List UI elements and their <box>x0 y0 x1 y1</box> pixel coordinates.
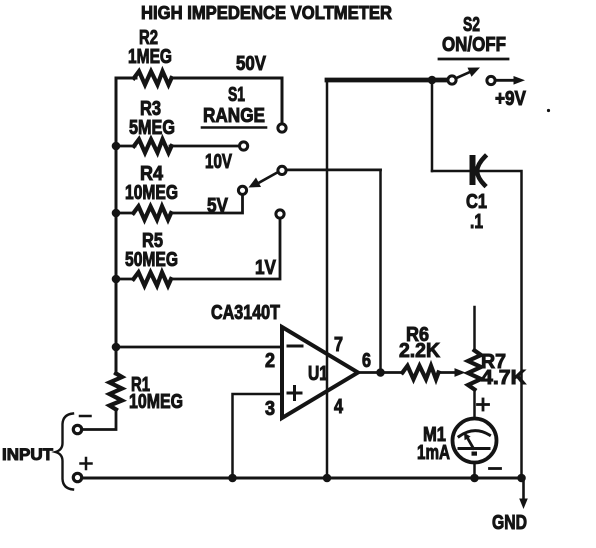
svg-text:.1: .1 <box>470 211 483 233</box>
junction supply line bus <box>323 474 332 483</box>
junction left bus R3 <box>112 142 121 151</box>
svg-text:6: 6 <box>362 350 371 372</box>
svg-text:10V: 10V <box>205 151 232 173</box>
svg-text:ON/OFF: ON/OFF <box>442 34 506 56</box>
resistor R2 <box>134 71 172 84</box>
svg-text:4: 4 <box>334 396 344 418</box>
meter plus sign <box>478 403 489 406</box>
svg-text:+9V: +9V <box>495 88 527 110</box>
wire R1 bottom to minus terminal <box>82 410 116 430</box>
junction meter bus <box>470 474 479 483</box>
svg-text:7: 7 <box>334 334 343 356</box>
resistor R1 <box>110 374 123 410</box>
wire R4 row right up to 5V <box>171 195 243 213</box>
svg-text:C1: C1 <box>466 191 487 213</box>
svg-text:S1: S1 <box>228 84 245 106</box>
speck <box>547 109 550 112</box>
wire +9V arrow <box>496 79 515 82</box>
resistor R5 <box>134 272 172 285</box>
wire R7 top <box>473 307 476 351</box>
switch S2 arm <box>456 72 470 78</box>
junction left bus pin2 <box>112 343 121 352</box>
svg-text:4.7K: 4.7K <box>481 367 527 389</box>
wire R5 row right up to 1V <box>171 219 280 280</box>
svg-text:S2: S2 <box>463 14 480 36</box>
capacitor C1 <box>470 158 476 182</box>
wire output row <box>358 371 403 374</box>
junction left bus R5 <box>112 275 121 284</box>
switch S2 output contact <box>487 76 495 84</box>
op-amp U1 <box>282 327 358 418</box>
resistor R7 rheostat <box>468 351 481 390</box>
wire to C1 left <box>432 170 470 173</box>
wire top supply row <box>327 78 451 83</box>
svg-text:INPUT: INPUT <box>2 446 53 464</box>
node input minus terminal <box>73 425 81 433</box>
wire feedback vertical <box>379 170 382 373</box>
wire meter bottom <box>473 463 476 479</box>
wire ground bus bottom <box>82 477 524 480</box>
svg-text:U1: U1 <box>308 363 328 385</box>
wire supply vertical through opamp <box>326 80 329 478</box>
junction pin3 bus <box>228 474 237 483</box>
svg-text:1MEG: 1MEG <box>128 46 172 68</box>
svg-text:50V: 50V <box>236 53 267 75</box>
svg-text:5V: 5V <box>207 195 229 217</box>
svg-text:1V: 1V <box>255 257 277 279</box>
meter minus sign <box>490 467 501 470</box>
op-amp minus input sign <box>288 345 302 348</box>
wire S1 pole to feedback line <box>287 168 381 171</box>
input brace <box>56 414 74 490</box>
switch S1 pole <box>278 166 286 174</box>
svg-text:3: 3 <box>265 398 275 420</box>
svg-text:50MEG: 50MEG <box>125 249 178 271</box>
resistor R4 <box>134 206 172 219</box>
wire pin2 row <box>116 346 282 349</box>
wire R3 row left <box>116 145 135 148</box>
node 5V contact <box>238 186 246 194</box>
wire R5 row left <box>116 278 134 281</box>
junction top supply <box>428 76 437 85</box>
minus sign <box>80 415 91 418</box>
wire junction down to C1 <box>431 80 434 171</box>
svg-text:CA3140T: CA3140T <box>211 302 280 324</box>
ground arrow <box>522 478 525 500</box>
wire R7 bottom to meter <box>473 390 476 420</box>
svg-text:GND: GND <box>492 512 527 534</box>
wire R2 row left <box>116 77 136 80</box>
node 1V contact <box>276 210 284 218</box>
svg-text:5MEG: 5MEG <box>129 117 175 139</box>
node input plus terminal <box>73 473 81 481</box>
resistor R3 <box>134 139 172 152</box>
plus sign <box>81 462 92 465</box>
svg-text:2: 2 <box>265 350 275 372</box>
junction left bus R4 <box>112 209 121 218</box>
meter M1 <box>453 419 497 463</box>
wire left bus vertical <box>115 78 118 374</box>
wire R2 row right to 50V drop <box>171 78 282 124</box>
svg-text:10MEG: 10MEG <box>129 391 183 413</box>
svg-text:2.2K: 2.2K <box>399 340 441 362</box>
svg-text:RANGE: RANGE <box>203 105 265 127</box>
switch S1 wiper arm <box>257 173 277 184</box>
junction output node 6 <box>376 368 385 377</box>
resistor R6 <box>403 366 439 379</box>
wire R6 to wiper arrow <box>438 371 454 374</box>
op-amp plus input sign <box>288 392 301 395</box>
junction right bus corner <box>517 474 526 483</box>
svg-text:HIGH IMPEDENCE VOLTMETER: HIGH IMPEDENCE VOLTMETER <box>141 3 392 23</box>
node 10V contact <box>240 142 248 150</box>
wire pin3 row <box>233 394 283 478</box>
wire R3 row right <box>170 145 239 148</box>
svg-text:1mA: 1mA <box>417 442 450 464</box>
svg-text:10MEG: 10MEG <box>125 182 178 204</box>
node 50V contact <box>278 124 286 132</box>
wire R4 row left <box>116 212 134 215</box>
switch S2 pole contact <box>448 76 456 84</box>
wire C1 right to right bus <box>480 171 522 478</box>
